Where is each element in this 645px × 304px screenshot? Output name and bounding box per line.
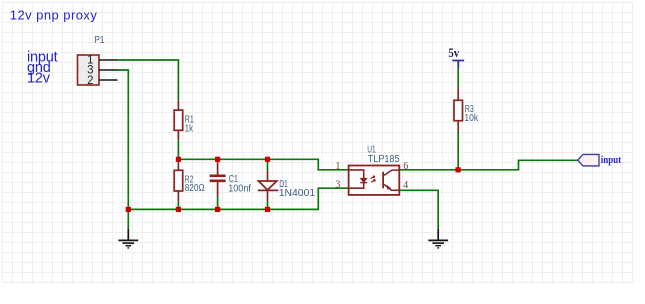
connector P1 pin 2 stub (99, 79, 118, 81)
wire R3 bottom to pin6 net (457, 131, 459, 170)
svg-text:input: input (601, 154, 622, 166)
connector P1 body (78, 55, 100, 85)
junction node gnd bottom bus (126, 207, 131, 212)
svg-text:4: 4 (403, 180, 408, 191)
resistor R2 (174, 159, 183, 201)
output flag input (578, 154, 599, 166)
svg-text:5v: 5v (448, 46, 459, 60)
junction node R2 bottom bus (176, 207, 181, 212)
capacitor C1 (210, 159, 226, 196)
wire R1 bottom to top bus (177, 140, 179, 159)
U1 internal LED (349, 170, 368, 188)
svg-text:TLP185: TLP185 (368, 154, 400, 165)
junction node R1/R2 top bus (176, 157, 181, 162)
U1 light arrow 1 (371, 176, 375, 179)
svg-text:12v pnp proxy: 12v pnp proxy (10, 7, 98, 22)
svg-text:2: 2 (87, 75, 93, 87)
wire D1 top (267, 159, 269, 171)
svg-text:12v: 12v (27, 71, 51, 87)
junction node D1 bottom bus (265, 207, 270, 212)
junction node R3 output net (456, 167, 461, 172)
wire U1 pin6 to input flag (399, 160, 578, 170)
junction node C1 bottom bus (215, 207, 220, 212)
wire R2 bottom to bottom bus (177, 201, 179, 209)
ground 2 (428, 229, 448, 248)
svg-text:1N4001: 1N4001 (279, 188, 316, 199)
resistor R1 (174, 100, 183, 140)
svg-text:1: 1 (335, 161, 340, 172)
svg-text:820Ω: 820Ω (185, 183, 205, 194)
svg-text:1k: 1k (185, 123, 194, 134)
U1 light arrow 2 (371, 180, 375, 183)
U1 phototransistor (382, 170, 399, 190)
wire C1 bottom to bottom bus (217, 196, 219, 209)
svg-text:10k: 10k (464, 113, 479, 124)
diode D1 (258, 171, 279, 201)
connector P1 pin 3 stub (99, 69, 118, 71)
junction node C1 top bus (215, 157, 220, 162)
wire pin1 to R1 top (118, 60, 179, 100)
svg-text:3: 3 (335, 179, 340, 190)
svg-text:100nf: 100nf (228, 184, 251, 195)
wire D1 bottom to bottom bus (267, 201, 269, 210)
wire bottom bus to U1 pin 3 (128, 188, 348, 209)
wire top bus to U1 pin 1 (178, 159, 348, 170)
svg-text:P1: P1 (94, 35, 105, 46)
wire pin3 to ground bus (118, 70, 129, 209)
supply 5v bar (452, 61, 464, 69)
connector P1 pin 1 stub (99, 59, 118, 61)
wire U1 pin4 to ground (399, 190, 438, 229)
ground 1 (118, 209, 138, 248)
junction node D1 top bus (265, 157, 270, 162)
wire 5v to R3 (457, 68, 459, 88)
resistor R3 (454, 88, 463, 131)
op-amp U1 box (349, 166, 400, 195)
